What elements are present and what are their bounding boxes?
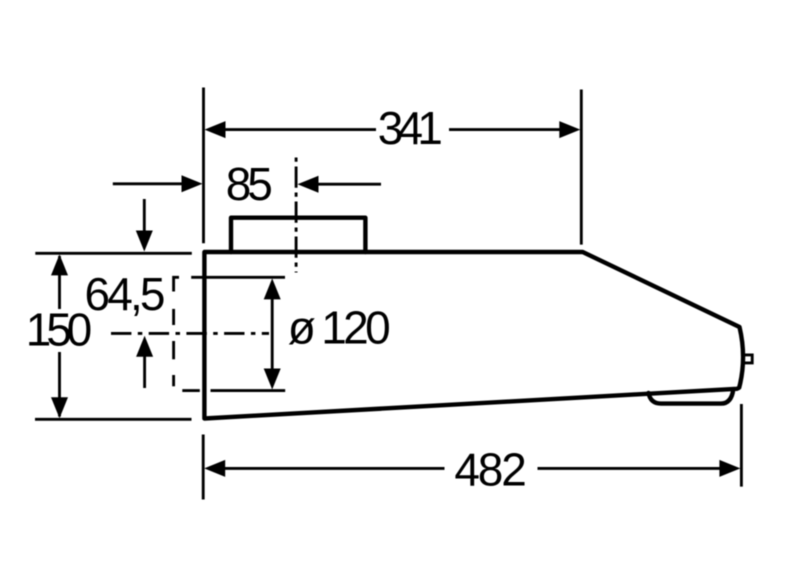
leader stem 64,5 upper	[143, 199, 146, 233]
extension line right of 341	[580, 90, 583, 245]
arrowhead 85 right pointing left	[298, 176, 319, 193]
arrowhead 150 top	[51, 254, 68, 275]
extension line left of 482	[202, 435, 205, 500]
horizontal centerline of duct	[111, 332, 269, 335]
dimension line 150 lower segment	[58, 352, 61, 417]
hood body outline	[204, 252, 743, 419]
arrowhead 64,5 down	[136, 231, 153, 252]
svg-text:150: 150	[26, 304, 93, 356]
leader stem 64,5 lower	[143, 355, 146, 388]
dimension line 341 right segment	[449, 128, 563, 131]
diameter 120 arrow stem	[271, 296, 274, 372]
arrowhead 482 right	[719, 460, 740, 477]
leader line 85 right	[316, 183, 381, 186]
extension line bottom-right of diameter 120	[211, 389, 286, 392]
svg-text:482: 482	[454, 443, 526, 495]
hidden duct edge dash 4	[172, 375, 175, 386]
hidden duct edge dash 3	[172, 341, 175, 359]
arrowhead 150 bottom	[51, 397, 68, 418]
arrowhead 64,5 up	[136, 336, 153, 357]
arrowhead 482 left	[204, 460, 225, 477]
hidden duct edge dash 2	[172, 309, 175, 325]
svg-text:85: 85	[226, 158, 273, 210]
leader line 85 left	[113, 182, 184, 185]
arrowhead 341 left	[205, 121, 226, 138]
dimension line 150 upper segment	[58, 256, 61, 309]
arrowhead 341 right	[559, 121, 580, 138]
hidden duct edge dashed corner	[174, 277, 179, 291]
svg-text:64,5: 64,5	[85, 268, 166, 320]
extension line bottom of 150	[35, 418, 192, 421]
vertical centerline of duct	[295, 158, 298, 273]
svg-text:341: 341	[378, 102, 443, 154]
extension line top of 150	[35, 252, 192, 255]
arrowhead diameter 120 top	[264, 278, 281, 299]
dimension line 482 right segment	[538, 467, 724, 470]
extension line top of diameter 120	[191, 276, 285, 279]
handle strip under bottom edge	[649, 389, 734, 403]
extension line left of 341	[202, 88, 205, 244]
svg-text:ø 120: ø 120	[288, 302, 391, 354]
dimension line 482 left segment	[222, 467, 445, 470]
extension line right of 482	[740, 404, 743, 487]
extension line bottom-left of diameter 120	[182, 389, 200, 392]
rear mounting nub	[743, 355, 752, 363]
duct collar bump on top	[231, 218, 365, 252]
arrowhead 85 left pointing right	[182, 175, 203, 192]
dimension line 341 left segment	[222, 128, 376, 131]
arrowhead diameter 120 bottom	[264, 369, 281, 390]
